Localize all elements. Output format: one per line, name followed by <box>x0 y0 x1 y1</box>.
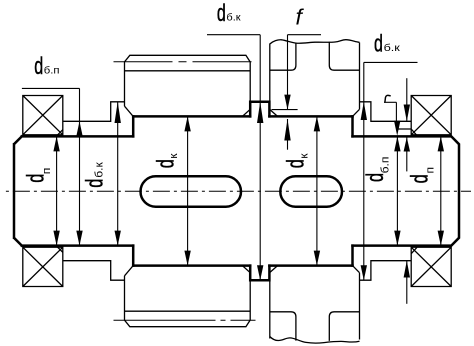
svg-text:п: п <box>41 168 52 175</box>
svg-text:d: d <box>407 174 433 183</box>
label d_bk right <box>374 32 383 58</box>
shaft right step faces <box>351 116 354 265</box>
svg-text:б.к: б.к <box>226 12 240 24</box>
centerline main axis <box>2 190 471 192</box>
svg-text:d: d <box>23 174 49 183</box>
label r <box>385 95 390 102</box>
dimension d_bk center <box>207 35 263 281</box>
bearing right bottom square <box>411 247 451 286</box>
dimension f <box>272 35 322 150</box>
gear left pitch line bottom <box>114 319 256 321</box>
label f <box>296 5 305 29</box>
svg-text:к: к <box>168 153 179 159</box>
svg-text:d: d <box>284 159 310 168</box>
label d_k right rotated <box>284 159 310 168</box>
label d_k left rotated <box>154 159 180 168</box>
shaft left journal outline <box>14 136 133 245</box>
svg-text:п: п <box>425 167 436 174</box>
keyway slot left seat <box>141 176 242 206</box>
dimension d_k right <box>314 116 320 265</box>
label d_bk center <box>217 1 226 27</box>
bearing inner corner mark right top <box>397 129 417 135</box>
arrow at journal edge right <box>404 137 410 171</box>
svg-text:d: d <box>217 1 226 27</box>
svg-text:d: d <box>374 32 383 58</box>
gear left body top <box>125 55 251 109</box>
bearing inner corner mark left top <box>57 130 63 136</box>
label d_p left rotated <box>23 174 49 183</box>
dimension d_p left <box>53 136 59 245</box>
wheel right top wave break line <box>270 40 360 44</box>
svg-text:d: d <box>34 54 43 80</box>
shaft left wheel seat edges <box>133 116 250 265</box>
left sleeve ring top <box>63 102 124 122</box>
bearing right top square <box>411 96 451 135</box>
dimension d_bk right <box>361 62 418 280</box>
gear left pitch line top <box>114 61 256 63</box>
dimension d_bp left <box>22 88 83 245</box>
wheel right bottom wave break line <box>270 337 360 344</box>
svg-text:d: d <box>363 173 389 182</box>
keyway slot right seat <box>280 176 342 206</box>
wheel right top broken view <box>270 42 360 110</box>
dimension d_k left <box>184 116 190 265</box>
svg-text:б.п: б.п <box>44 65 60 77</box>
gear left bore chamfers <box>125 106 251 276</box>
right shoulder flange ring top <box>360 102 412 122</box>
bearing inner corner mark right bottom <box>411 247 417 253</box>
right shoulder flange ring bottom <box>360 261 412 281</box>
bearing inner corner mark left bottom <box>57 247 63 253</box>
svg-text:к: к <box>299 153 310 159</box>
dimension d_bk left <box>115 102 121 246</box>
shaft right journal outline <box>353 136 460 245</box>
label d_bk left rotated <box>83 179 109 188</box>
shaft right wheel seat edges <box>269 116 352 265</box>
svg-text:d: d <box>83 179 109 188</box>
bearing left top square <box>23 96 63 135</box>
left sleeve ring bottom <box>63 261 124 281</box>
svg-text:б.п: б.п <box>380 157 391 174</box>
wheel right bottom broken view <box>270 273 360 341</box>
dimension d_bp right sleeve pointers <box>404 78 410 304</box>
dimension d_bp right journal line <box>394 136 400 245</box>
label d_p right rotated <box>407 174 433 183</box>
gear left body bottom <box>125 273 251 327</box>
svg-text:d: d <box>154 159 180 168</box>
wheel right bore chamfers <box>270 109 360 272</box>
shaft left step faces <box>132 116 135 265</box>
bearing left bottom square <box>23 247 63 286</box>
label d_bp right rotated <box>363 173 389 182</box>
svg-text:б.к: б.к <box>94 161 105 178</box>
dimension d_p right <box>438 136 444 245</box>
label d_bp left <box>34 54 43 80</box>
dimension r leader <box>384 102 400 136</box>
svg-text:б.к: б.к <box>384 43 401 54</box>
shaft central shoulder <box>250 102 269 280</box>
